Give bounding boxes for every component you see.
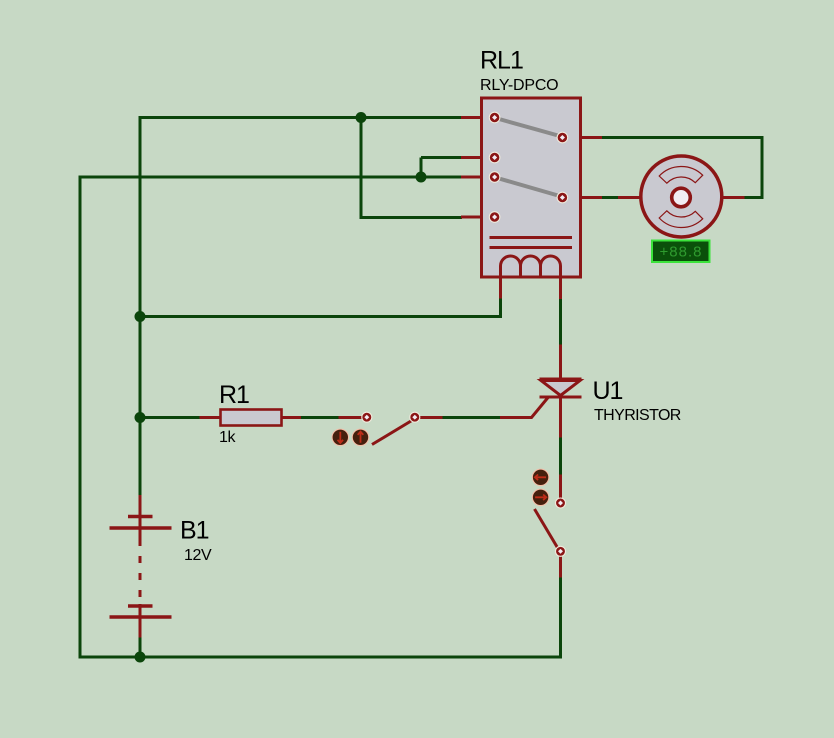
svg-text:U1: U1: [593, 377, 623, 405]
svg-text:RLY-DPCO: RLY-DPCO: [480, 77, 558, 94]
svg-text:+88.8: +88.8: [660, 244, 703, 261]
svg-text:B1: B1: [180, 517, 209, 545]
svg-text:12V: 12V: [184, 547, 212, 564]
svg-text:THYRISTOR: THYRISTOR: [594, 407, 681, 424]
svg-text:R1: R1: [219, 381, 249, 409]
svg-text:RL1: RL1: [480, 47, 523, 75]
svg-text:1k: 1k: [219, 429, 236, 446]
